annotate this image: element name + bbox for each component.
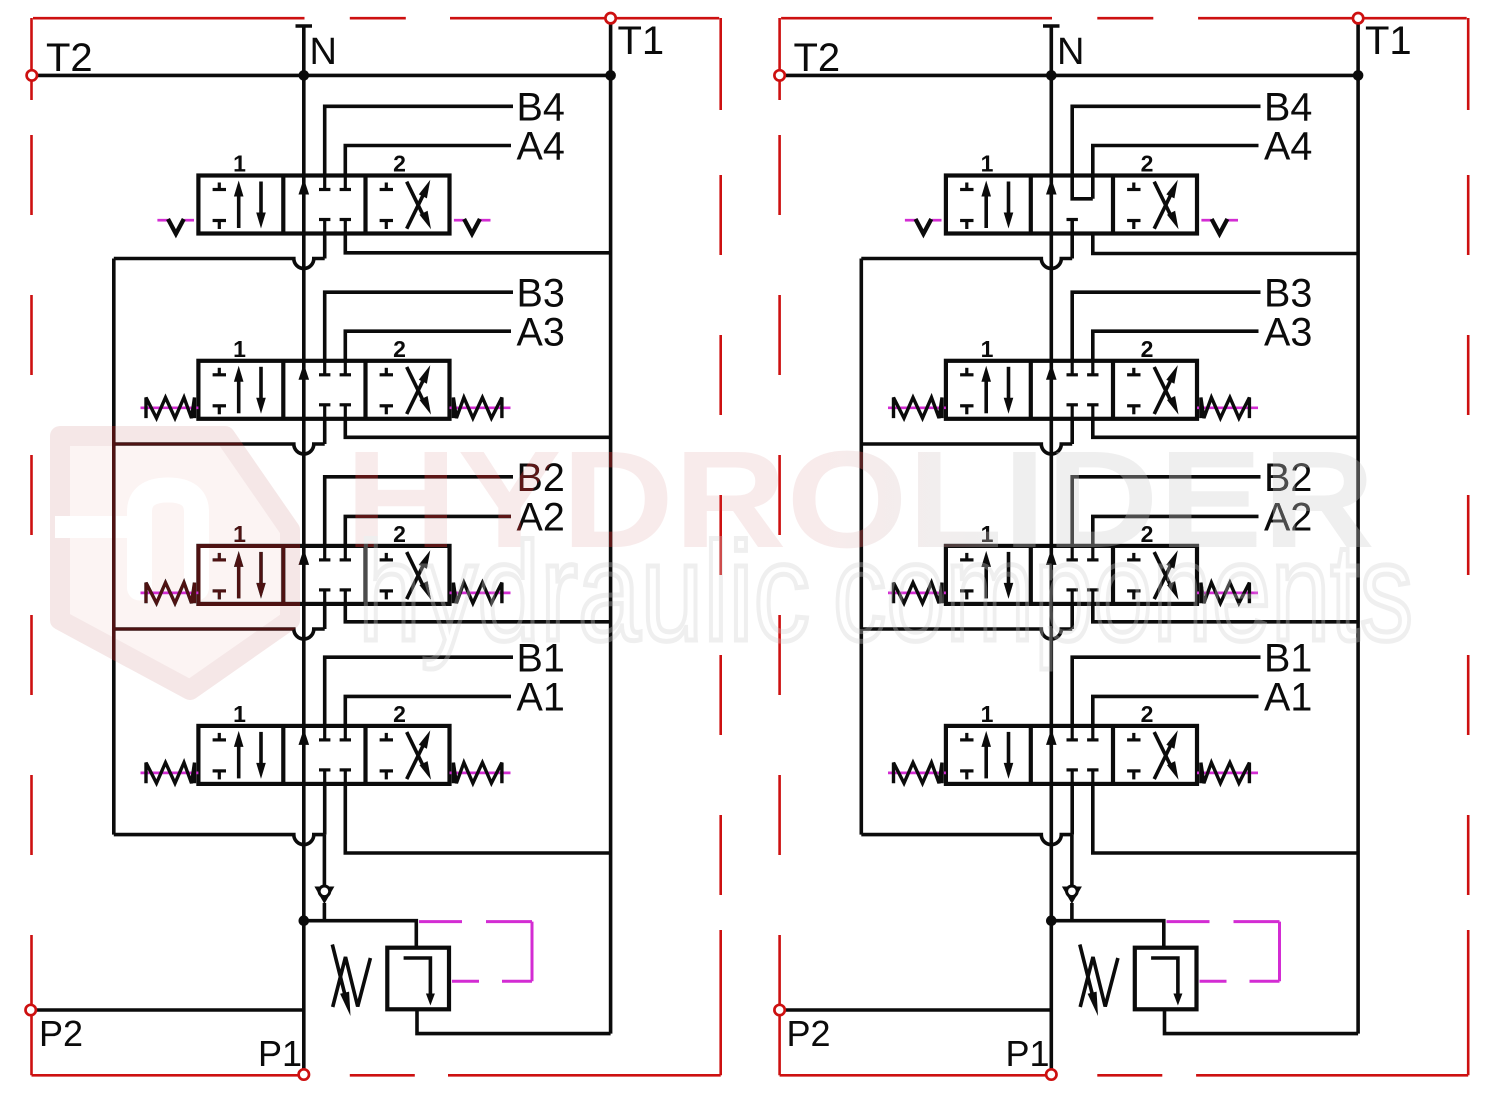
svg-text:T1: T1 — [618, 19, 665, 63]
label B2 (module B) — [1264, 456, 1312, 500]
valve 2 left spring (module B) — [888, 583, 946, 604]
valve 2 centre tank stubs bottom (module A) — [319, 590, 351, 604]
valve 2 right-box blocked port bottom (module B) — [1127, 591, 1140, 600]
svg-text:1: 1 — [233, 151, 246, 177]
valve 1 crossed arrows (module B) — [1154, 730, 1178, 780]
valve 1 left-box blocked port top (module A) — [213, 733, 226, 740]
valve 3 left-box blocked port bottom (module A) — [213, 406, 226, 415]
label B2 (module A) — [517, 456, 565, 500]
relief flow arrow (module A) — [404, 958, 435, 1006]
pilot line magenta dashed (module B) — [1167, 922, 1280, 982]
valve 1 right spring (module B) — [1197, 763, 1258, 784]
valve 1 centre tank stubs bottom (module B) — [1067, 770, 1099, 784]
wire bypass with hop, valve 4 (module A) — [114, 259, 325, 269]
valve 3 left-box blocked port bottom (module B) — [960, 406, 973, 415]
node T1-T2 junction (module A) — [605, 70, 616, 81]
label P1 (module A) — [258, 1033, 302, 1074]
wire A3 label line (module A) — [345, 331, 511, 361]
valve 4 centre tank stub bottom (module B) — [1067, 220, 1078, 234]
label N (module B) — [1057, 31, 1084, 73]
pilot line magenta dashed (module A) — [419, 922, 532, 982]
valve 3 right spring (module B) — [1197, 398, 1258, 419]
svg-text:B3: B3 — [1264, 271, 1312, 315]
label A2 (module A) — [517, 496, 565, 540]
valve 3 left spring (module A) — [141, 398, 199, 419]
red dashed enclosure border (module A) — [32, 18, 721, 1075]
wire P2 line (module A) — [31, 1008, 304, 1012]
valve 4 left-box up arrow (module A) — [234, 181, 244, 229]
wire B2 label line (module B) — [1072, 477, 1260, 546]
wire A4 label line (module B) — [1093, 146, 1259, 199]
valve 3 centre blocked stubs top (module A) — [319, 361, 351, 375]
wire bypass with hop, valve 4 (module B) — [861, 259, 1072, 269]
svg-text:2: 2 — [393, 701, 406, 727]
wire A-line to T1 rail, valve 3 (module B) — [1093, 418, 1358, 438]
svg-text:A3: A3 — [517, 310, 565, 354]
port circle P2 (module A) — [26, 1005, 36, 1015]
label N (module A) — [310, 31, 337, 73]
relief check box (module A) — [387, 948, 449, 1010]
wire A2 label line (module B) — [1093, 516, 1259, 546]
wire A-line to T1 rail, valve 2 (module A) — [345, 603, 610, 622]
valve 3 crossed arrows (module B) — [1154, 365, 1178, 415]
wire B-port stub to bypass, valve 4 (module A) — [323, 233, 327, 259]
wire bypass with hop, valve 3 (module B) — [861, 444, 1072, 454]
label A4 (module B) — [1264, 125, 1312, 169]
valve 4 position label 2 (module A) — [393, 151, 406, 177]
valve 2 body box (module A) — [198, 546, 449, 604]
valve 1 centre blocked stubs top (module B) — [1067, 726, 1099, 740]
valve 3 right-box blocked port top (module B) — [1127, 368, 1140, 375]
wire bypass loop vertical (module A) — [112, 259, 116, 835]
valve 3 left-box up arrow (module A) — [234, 366, 244, 414]
relief adjustable spring (module B) — [1080, 945, 1118, 1017]
valve 4 crossed arrows (module B) — [1154, 180, 1178, 230]
svg-text:N: N — [310, 31, 337, 73]
valve 4 left-box blocked port top (module A) — [213, 183, 226, 190]
valve 2 left-box down arrow (module A) — [256, 552, 266, 599]
valve 1 left-box blocked port bottom (module B) — [960, 771, 973, 780]
valve 1 left spring (module A) — [141, 763, 199, 784]
valve 2 left-box up arrow (module A) — [234, 551, 244, 599]
svg-text:A4: A4 — [1264, 125, 1312, 169]
wire B1 label line (module B) — [1072, 657, 1260, 726]
valve 3 centre tank stubs bottom (module B) — [1067, 405, 1099, 419]
valve 2 centre tank stubs bottom (module B) — [1067, 590, 1099, 604]
valve 1 body box (module A) — [198, 726, 449, 784]
valve 2 position label 1 (module A) — [233, 521, 246, 547]
wire B3 label line (module B) — [1072, 292, 1260, 361]
svg-text:2: 2 — [393, 336, 406, 362]
svg-text:1: 1 — [233, 701, 246, 727]
label A2 (module B) — [1264, 496, 1312, 540]
valve 1 right-box blocked port bottom (module B) — [1127, 771, 1140, 780]
valve 1 position label 1 (module B) — [981, 701, 994, 727]
label B4 (module A) — [517, 86, 565, 130]
wire T1 vertical rail (module A) — [609, 18, 613, 1033]
svg-text:2: 2 — [393, 151, 406, 177]
valve 3 centre up arrowhead on N line (module B) — [1046, 364, 1057, 380]
node T1-T2 junction (module B) — [1353, 70, 1364, 81]
wire B1 label line (module A) — [325, 657, 513, 726]
valve 3 body box (module A) — [198, 361, 449, 419]
port circle P1 (module A) — [299, 1069, 309, 1079]
valve 2 centre blocked stubs top (module A) — [319, 546, 351, 560]
svg-text:A1: A1 — [1264, 676, 1312, 720]
wire B-port stub to bypass, valve 1 (module B) — [1070, 783, 1074, 835]
wire A2 label line (module A) — [345, 516, 511, 546]
svg-text:1: 1 — [981, 701, 994, 727]
svg-text:1: 1 — [233, 336, 246, 362]
label B4 (module B) — [1264, 86, 1312, 130]
valve 1 right spring (module A) — [450, 763, 511, 784]
valve 4 position label 1 (module A) — [233, 151, 246, 177]
valve 4 centre blocked stubs top (module A) — [319, 176, 351, 190]
valve 1 left-box up arrow (module B) — [981, 731, 991, 779]
svg-text:A1: A1 — [517, 676, 565, 720]
svg-text:P1: P1 — [258, 1033, 302, 1074]
svg-text:B3: B3 — [517, 271, 565, 315]
port circle P2 (module B) — [774, 1005, 784, 1015]
valve 4 right-box blocked port top (module A) — [380, 183, 393, 190]
check valve drop wire (module B) — [1070, 835, 1074, 886]
label B1 (module B) — [1264, 636, 1312, 680]
valve 1 position label 2 (module A) — [393, 701, 406, 727]
valve 2 left spring (module A) — [141, 583, 199, 604]
valve 3 centre tank stubs bottom (module A) — [319, 405, 351, 419]
valve 4 centre up arrowhead on N line (module B) — [1046, 179, 1057, 195]
wire B-port stub to bypass, valve 3 (module A) — [323, 418, 327, 444]
wire B2 label line (module A) — [325, 477, 513, 546]
node relief branch junction (module A) — [299, 915, 310, 926]
wire B3 label line (module A) — [325, 292, 513, 361]
wire B4 label line (module A) — [325, 106, 513, 175]
valve 2 position label 2 (module B) — [1141, 521, 1154, 547]
wire T2 rail (module B) — [780, 74, 1358, 78]
svg-text:P1: P1 — [1006, 1033, 1050, 1074]
valve 4 left-box blocked port bottom (module B) — [960, 221, 973, 230]
valve 3 left-box up arrow (module B) — [981, 366, 991, 414]
valve 2 right-box blocked port bottom (module A) — [380, 591, 393, 600]
label P2 (module A) — [39, 1013, 83, 1054]
svg-text:A4: A4 — [517, 125, 565, 169]
wire A1 label line (module A) — [345, 696, 511, 726]
valve 3 position label 2 (module B) — [1141, 336, 1154, 362]
svg-text:N: N — [1057, 31, 1084, 73]
valve 4 left-box blocked port bottom (module A) — [213, 221, 226, 230]
port circle T2 (module A) — [27, 70, 37, 80]
port circle T2 (module B) — [774, 70, 784, 80]
valve 3 position label 2 (module A) — [393, 336, 406, 362]
relief branch wire (module B) — [1051, 921, 1164, 948]
valve 3 centre blocked stubs top (module B) — [1067, 361, 1099, 375]
valve 3 left-box blocked port top (module A) — [213, 368, 226, 375]
wire B-port stub to bypass, valve 3 (module B) — [1070, 418, 1074, 444]
valve 1 right-box blocked port top (module B) — [1127, 733, 1140, 740]
valve 2 left-box up arrow (module B) — [981, 551, 991, 599]
valve 2 left-box down arrow (module B) — [1004, 552, 1014, 599]
valve 4 left-box down arrow (module A) — [256, 182, 266, 229]
node N-T2 junction (module A) — [299, 70, 310, 81]
wire N pressure line (module B) — [1043, 26, 1060, 1075]
port circle P1 (module B) — [1046, 1069, 1056, 1079]
valve 1 left-box blocked port bottom (module A) — [213, 771, 226, 780]
valve 2 centre up arrowhead on N line (module A) — [299, 549, 310, 565]
relief flow arrow (module B) — [1151, 958, 1182, 1006]
valve 2 centre blocked stubs top (module B) — [1067, 546, 1099, 560]
svg-text:hydraulic: hydraulic — [358, 513, 810, 670]
valve 3 left-box down arrow (module B) — [1004, 367, 1014, 414]
valve 1 left-box down arrow (module A) — [256, 732, 266, 779]
valve 1 right-box blocked port bottom (module A) — [380, 771, 393, 780]
valve 2 right spring (module A) — [450, 583, 511, 604]
svg-text:2: 2 — [1141, 151, 1154, 177]
wire B4 label line (module B) — [1072, 106, 1260, 199]
check valve drop wire (module A) — [323, 835, 327, 886]
svg-text:1: 1 — [981, 151, 994, 177]
label T1 (module A) — [618, 19, 665, 63]
wire bypass with hop, valve 2 (module A) — [114, 629, 325, 639]
valve 4 right-box blocked port bottom (module B) — [1127, 221, 1140, 230]
valve 4 centre up arrowhead on N line (module A) — [299, 179, 310, 195]
valve 4 crossed arrows (module A) — [407, 180, 431, 230]
wire bottom return (module A) — [417, 1009, 611, 1033]
valve 1 centre up arrowhead on N line (module A) — [299, 729, 310, 745]
wire B-port stub to bypass, valve 4 (module B) — [1070, 220, 1074, 259]
valve 2 left-box blocked port bottom (module A) — [213, 591, 226, 600]
valve 4 position label 2 (module B) — [1141, 151, 1154, 177]
wire A-line to T1 rail, valve 4 (module B) — [1093, 234, 1358, 254]
node N-T2 junction (module B) — [1046, 70, 1057, 81]
valve 4 position label 1 (module B) — [981, 151, 994, 177]
label T1 (module B) — [1365, 19, 1412, 63]
svg-text:P2: P2 — [39, 1013, 83, 1054]
label A1 (module A) — [517, 676, 565, 720]
wire B-port stub to bypass, valve 2 (module A) — [323, 603, 327, 629]
svg-text:1: 1 — [981, 336, 994, 362]
wire B-port stub to bypass, valve 2 (module B) — [1070, 603, 1074, 629]
valve 4 left-box down arrow (module B) — [1004, 182, 1014, 229]
wire A-line to T1 rail, valve 2 (module B) — [1093, 603, 1358, 622]
valve 4 right detent (module B) — [1201, 219, 1238, 234]
label A4 (module A) — [517, 125, 565, 169]
valve 1 left-box down arrow (module B) — [1004, 732, 1014, 779]
svg-text:2: 2 — [1141, 336, 1154, 362]
relief check box (module B) — [1135, 948, 1197, 1010]
svg-text:T2: T2 — [46, 36, 93, 80]
node relief branch junction (module B) — [1046, 915, 1057, 926]
valve 3 left spring (module B) — [888, 398, 946, 419]
svg-text:B4: B4 — [1264, 86, 1312, 130]
wire A4 label line (module A) — [345, 146, 511, 176]
valve 1 position label 2 (module B) — [1141, 701, 1154, 727]
label A1 (module B) — [1264, 676, 1312, 720]
port circle T1 (module A) — [605, 13, 615, 23]
relief adjustable spring (module A) — [332, 945, 370, 1017]
label A3 (module B) — [1264, 310, 1312, 354]
valve 1 centre up arrowhead on N line (module B) — [1046, 729, 1057, 745]
svg-text:A3: A3 — [1264, 310, 1312, 354]
valve 2 crossed arrows (module B) — [1154, 550, 1178, 600]
wire bypass loop vertical (module B) — [859, 259, 863, 835]
valve 1 centre blocked stubs top (module A) — [319, 726, 351, 740]
wire bypass with hop, valve 1 (module A) — [114, 835, 325, 845]
valve 1 centre tank stubs bottom (module A) — [319, 770, 351, 784]
valve 3 centre up arrowhead on N line (module A) — [299, 364, 310, 380]
label P2 (module B) — [787, 1013, 831, 1054]
valve 3 position label 1 (module B) — [981, 336, 994, 362]
valve 2 left-box blocked port bottom (module B) — [960, 591, 973, 600]
wire A-line to T1 rail, valve 1 (module B) — [1093, 783, 1358, 853]
watermark dark tint layer — [60, 423, 1413, 690]
svg-text:2: 2 — [1141, 701, 1154, 727]
port circle T1 (module B) — [1353, 13, 1363, 23]
wire bypass with hop, valve 2 (module B) — [861, 629, 1072, 639]
valve 3 position label 1 (module A) — [233, 336, 246, 362]
svg-text:B4: B4 — [517, 86, 565, 130]
valve 2 right spring (module B) — [1197, 583, 1258, 604]
valve 1 left-box up arrow (module A) — [234, 731, 244, 779]
ball check valve (module B) — [1062, 885, 1082, 921]
wire A-line to T1 rail, valve 3 (module A) — [345, 418, 610, 438]
wire N pressure line (module A) — [296, 26, 313, 1075]
watermark light tint layer — [55, 423, 1413, 690]
label P1 (module B) — [1006, 1033, 1050, 1074]
svg-text:components: components — [833, 513, 1413, 670]
wire B-port stub to bypass, valve 1 (module A) — [323, 783, 327, 835]
label A3 (module A) — [517, 310, 565, 354]
relief branch wire (module A) — [304, 921, 417, 948]
ball check valve (module A) — [314, 885, 334, 921]
valve 4 body box (module B) — [946, 176, 1197, 234]
valve 1 position label 1 (module A) — [233, 701, 246, 727]
valve 2 body box (module B) — [946, 546, 1197, 604]
svg-text:T1: T1 — [1365, 19, 1412, 63]
wire A1 label line (module B) — [1093, 696, 1259, 726]
valve 1 left-box blocked port top (module B) — [960, 733, 973, 740]
valve 4 left detent (module B) — [905, 219, 942, 234]
valve 1 crossed arrows (module A) — [407, 730, 431, 780]
valve 1 left spring (module B) — [888, 763, 946, 784]
label B3 (module B) — [1264, 271, 1312, 315]
valve 2 position label 2 (module A) — [393, 521, 406, 547]
valve 4 right detent (module A) — [454, 219, 491, 234]
valve 4 left-box up arrow (module B) — [981, 181, 991, 229]
valve 1 right-box blocked port top (module A) — [380, 733, 393, 740]
wire bypass with hop, valve 3 (module A) — [114, 444, 325, 454]
valve 3 right spring (module A) — [450, 398, 511, 419]
label T2 (module B) — [794, 36, 841, 80]
svg-text:P2: P2 — [787, 1013, 831, 1054]
valve 4 left-box blocked port top (module B) — [960, 183, 973, 190]
valve 4 left detent (module A) — [157, 219, 194, 234]
valve 2 right-box blocked port top (module A) — [380, 553, 393, 560]
valve 4 right-box blocked port bottom (module A) — [380, 221, 393, 230]
label B3 (module A) — [517, 271, 565, 315]
valve 3 left-box blocked port top (module B) — [960, 368, 973, 375]
valve 4 right-box blocked port top (module B) — [1127, 183, 1140, 190]
wire T1 vertical rail (module B) — [1356, 18, 1360, 1033]
wire T2 rail (module A) — [32, 74, 611, 78]
valve 3 right-box blocked port bottom (module B) — [1127, 406, 1140, 415]
valve 2 left-box blocked port top (module B) — [960, 553, 973, 560]
valve 3 left-box down arrow (module A) — [256, 367, 266, 414]
wire A-line to T1 rail, valve 4 (module A) — [345, 233, 610, 253]
svg-text:T2: T2 — [794, 36, 841, 80]
red dashed enclosure border (module B) — [780, 18, 1469, 1075]
valve 4 centre tank stubs bottom (module A) — [319, 220, 351, 234]
wire A-line to T1 rail, valve 1 (module A) — [345, 783, 610, 853]
valve 3 right-box blocked port top (module A) — [380, 368, 393, 375]
valve 2 position label 1 (module B) — [981, 521, 994, 547]
valve 3 right-box blocked port bottom (module A) — [380, 406, 393, 415]
wire A3 label line (module B) — [1093, 331, 1259, 361]
label T2 (module A) — [46, 36, 93, 80]
wire P2 line (module B) — [780, 1008, 1052, 1012]
valve 1 body box (module B) — [946, 726, 1197, 784]
valve 2 left-box blocked port top (module A) — [213, 553, 226, 560]
valve 3 body box (module B) — [946, 361, 1197, 419]
wire bypass with hop, valve 1 (module B) — [861, 835, 1072, 845]
valve 2 right-box blocked port top (module B) — [1127, 553, 1140, 560]
valve 4 body box (module A) — [198, 176, 449, 234]
label B1 (module A) — [517, 636, 565, 680]
valve 3 crossed arrows (module A) — [407, 365, 431, 415]
valve 2 crossed arrows (module A) — [407, 550, 431, 600]
valve 2 centre up arrowhead on N line (module B) — [1046, 549, 1057, 565]
wire bottom return (module B) — [1165, 1009, 1359, 1033]
